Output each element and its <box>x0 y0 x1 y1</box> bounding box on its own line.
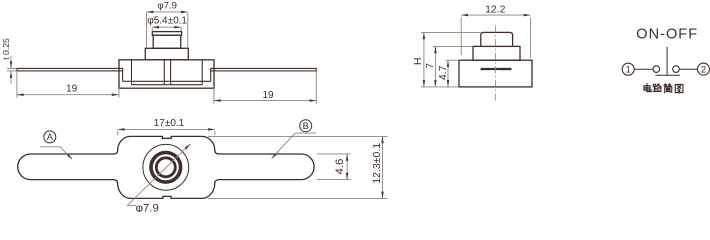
contact: right fixed contact <box>673 66 680 73</box>
dimension 12.2 body width <box>460 18 462 56</box>
bottom view: inner ring <box>156 158 175 177</box>
wire: right lead (side view) <box>211 68 317 71</box>
svg-text:1: 1 <box>626 65 631 76</box>
dimension 4.7 base height <box>446 59 460 61</box>
dimension t0.25 lead thickness <box>7 67 17 69</box>
dimension H total height <box>421 31 481 33</box>
svg-text:4.6: 4.6 <box>334 159 346 175</box>
dimension φ5.4±0.1 cap diameter <box>151 28 153 31</box>
svg-text:19: 19 <box>66 84 78 95</box>
side view: button cap body <box>153 35 181 48</box>
node B: right terminal label <box>300 120 312 132</box>
svg-text:B: B <box>303 121 309 131</box>
side view: inner bottom line <box>132 84 203 86</box>
svg-text:φ7.9: φ7.9 <box>136 202 159 212</box>
svg-text:A: A <box>47 132 54 142</box>
leader φ7.9 for bottom view circle <box>127 144 190 206</box>
front view: body <box>459 60 532 87</box>
switch bridge bar <box>655 74 680 76</box>
wire: terminal 1 to left contact <box>634 68 653 70</box>
dimension 19 left lead length <box>16 71 18 98</box>
svg-text:17±0.1: 17±0.1 <box>154 118 185 129</box>
front view: middle step <box>473 46 520 60</box>
dimension 12.3±0.1 overall height bottom view <box>208 135 388 137</box>
side view: center contact post <box>163 60 165 85</box>
svg-text:4.7: 4.7 <box>437 65 449 80</box>
bottom view: thick ring <box>151 153 181 183</box>
svg-text:ON-OFF: ON-OFF <box>636 27 698 43</box>
bottom view: outer button circle φ7.9 <box>143 144 189 190</box>
wire: left lead (side view) <box>17 68 123 71</box>
svg-text:19: 19 <box>262 90 274 101</box>
svg-text:7: 7 <box>424 63 436 69</box>
front view: slot in body <box>481 68 512 70</box>
svg-text:2: 2 <box>701 65 706 76</box>
leader for label A <box>40 146 60 148</box>
dimension φ7.9 stem diameter <box>146 13 148 48</box>
switch actuator shaft <box>666 47 668 75</box>
extension baseline front view <box>421 86 459 88</box>
svg-text:12.2: 12.2 <box>485 4 506 16</box>
dimension 4.6 lead width <box>317 153 350 155</box>
terminal 2 <box>698 63 710 75</box>
contact: left fixed contact <box>653 66 660 73</box>
wire: right contact to terminal 2 <box>679 68 697 70</box>
leader for label B <box>295 132 316 134</box>
front view: vertical centerline <box>495 26 497 103</box>
node A: left terminal label <box>44 131 56 143</box>
caption 电路简图 (circuit diagram) drawn as vector strokes <box>644 84 651 92</box>
svg-text:φ7.9: φ7.9 <box>157 1 177 12</box>
dimension 17±0.1 body width bottom view <box>117 131 119 135</box>
svg-text:H: H <box>412 58 424 66</box>
svg-text:t 0.25: t 0.25 <box>1 38 11 60</box>
side view: inner cavity walls <box>131 60 133 85</box>
side view: switch body housing <box>119 60 214 88</box>
dimension 19 right lead length <box>213 88 215 103</box>
side view: button cap top band <box>152 32 181 36</box>
bottom view: one-piece silhouette of body and leads <box>18 136 314 198</box>
side view: stem block <box>145 48 188 60</box>
svg-text:φ5.4±0.1: φ5.4±0.1 <box>147 16 187 27</box>
front view: button cap <box>481 32 513 46</box>
terminal 1 <box>622 63 634 75</box>
svg-text:12.3±0.1: 12.3±0.1 <box>371 143 383 184</box>
side view: lead bend line <box>123 80 211 82</box>
dimension 7 height to step <box>433 45 473 47</box>
